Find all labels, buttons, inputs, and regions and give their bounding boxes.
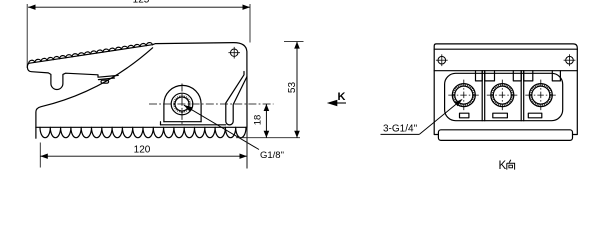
svg-text:G1/8": G1/8" [260,150,284,161]
svg-text:18: 18 [253,115,264,126]
svg-text:53: 53 [287,82,298,94]
svg-text:K: K [499,160,507,172]
svg-text:125: 125 [133,0,150,6]
svg-text:K: K [338,91,346,103]
svg-text:120: 120 [134,145,151,156]
svg-text:3-G1/4": 3-G1/4" [383,124,418,135]
